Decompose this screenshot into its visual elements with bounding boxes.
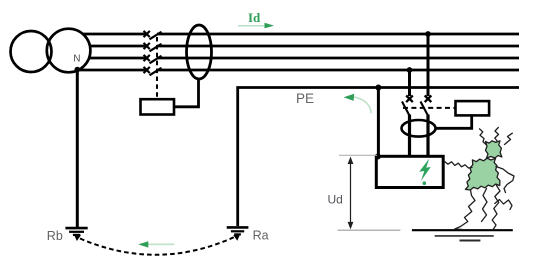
person spark above head right <box>495 128 499 142</box>
ground line 2 <box>435 235 494 237</box>
wire PE (protective earth bus) <box>238 88 519 227</box>
ground line 3 <box>460 240 481 242</box>
trip relay box K1 <box>141 99 175 114</box>
wire K1 to toroid <box>174 79 199 107</box>
person right hand scribble <box>495 200 512 210</box>
person (sketchy figure receiving shock) <box>445 128 515 230</box>
svg-text:Ud: Ud <box>328 192 343 206</box>
wire L1 left segment <box>83 33 147 36</box>
person torso (green jagged) <box>465 158 500 190</box>
main switch Q1 contact crosses <box>144 31 150 73</box>
node PE tap junction <box>375 85 381 91</box>
ground line 1 under person <box>412 229 513 231</box>
person right leg <box>492 186 500 230</box>
person head (green jagged) <box>485 141 502 158</box>
wire L2 left segment <box>90 45 147 48</box>
RCD Q2 linkage (dashed) <box>403 107 456 109</box>
main switch Q1 linkage (dashed) <box>156 37 158 99</box>
node appliance PE corner <box>375 154 381 160</box>
RCD relay box K2 <box>456 101 490 115</box>
wire K2 to toroid CT2 <box>436 115 472 128</box>
svg-text:Ra: Ra <box>253 229 269 243</box>
node N junction (dot at transformer neutral) <box>75 67 81 73</box>
wire L1 right segment (bus to right edge) <box>157 33 519 36</box>
wire L3 left segment <box>89 57 147 60</box>
svg-text:N: N <box>73 54 80 65</box>
wire earth return path (dashed arc Ra to Rb) <box>80 237 236 255</box>
dimension arrow Ud (double headed) <box>350 159 352 226</box>
node N tap junction <box>407 67 413 73</box>
person spark right of head <box>505 133 513 144</box>
person spark above head left <box>480 129 487 145</box>
person inner leg scribble <box>482 189 488 222</box>
wire PE drop to appliance <box>377 88 380 157</box>
toroid CT2 <box>402 120 436 137</box>
toroid CT1 (core balance transformer) <box>187 25 212 79</box>
wire L1 tap down to RCD <box>427 34 430 96</box>
svg-text:PE: PE <box>296 91 314 106</box>
main switch Q1 blades <box>150 32 162 76</box>
measure line bottom (gray) <box>338 229 401 231</box>
svg-text:Rb: Rb <box>47 229 63 243</box>
wire N right segment <box>157 69 519 72</box>
wire RCD output left (to load) <box>408 115 411 157</box>
wire L2 right segment <box>157 45 519 48</box>
wire L3 right segment <box>157 57 519 60</box>
svg-text:Id: Id <box>248 10 261 25</box>
wire N left segment <box>78 69 147 72</box>
earth electrode Rb symbol <box>65 228 87 235</box>
arrow earth current (green, left) <box>148 243 175 245</box>
fault symbol (green lightning bolt) <box>419 159 431 181</box>
transformer T1 (source) <box>11 29 91 73</box>
appliance (faulty load) box <box>376 156 443 187</box>
arrow Id (green, right) <box>238 25 266 27</box>
node L1 tap junction <box>425 31 431 37</box>
RCD Q2 blades <box>402 102 428 117</box>
arrow PE current (green curved, left) <box>354 97 371 113</box>
wire N tap down to RCD <box>408 70 411 96</box>
person left arm (touching appliance) <box>445 162 473 169</box>
arrowhead at Ra end <box>233 234 240 241</box>
earth electrode Ra symbol <box>227 227 249 234</box>
measure line top (gray) <box>339 154 377 156</box>
person right arm <box>496 167 514 193</box>
RCD Q2 contact crosses <box>406 96 431 103</box>
wire RCD output right (to load) <box>426 115 429 157</box>
arrowhead at Rb end <box>74 234 81 241</box>
person left leg <box>455 190 475 230</box>
wire neutral earthing conductor to Rb <box>76 70 79 229</box>
